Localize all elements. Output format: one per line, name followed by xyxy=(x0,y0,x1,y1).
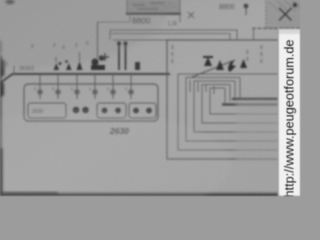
riser above D3 xyxy=(79,52,81,61)
vignette bottom-light xyxy=(0,110,230,220)
pin 3 xyxy=(76,84,78,99)
U2 bottom edge wire xyxy=(252,27,300,29)
watermark strip xyxy=(279,29,301,196)
wire V x=253.5 from U2 xyxy=(253,28,255,40)
pin 6 xyxy=(130,84,132,99)
switch lever S2 xyxy=(192,60,235,77)
wire stub left xyxy=(13,66,15,74)
pin labels xyxy=(34,86,128,91)
connector dot P1 xyxy=(244,4,249,9)
pin 5 xyxy=(112,84,114,99)
paper background xyxy=(0,0,300,196)
comp Z5 xyxy=(228,61,236,72)
diode D4 xyxy=(203,56,213,66)
contrast veil xyxy=(0,0,279,196)
connector dot P2 xyxy=(293,3,298,8)
wire loop W2 xyxy=(186,78,278,142)
wire loop W5 xyxy=(210,88,278,114)
U2 cross symbol xyxy=(279,8,292,21)
wire V x=97.5 xyxy=(97,22,99,58)
diode D6 xyxy=(240,59,247,68)
D1 stem xyxy=(55,57,57,62)
wire V x=110 xyxy=(109,30,111,40)
wire loop W3 xyxy=(194,81,278,132)
terminal pair T3 xyxy=(133,108,152,114)
strip edge xyxy=(277,29,278,196)
terminal pair T2 xyxy=(102,108,121,114)
wire loop W4 xyxy=(202,85,278,124)
wire V x=130 xyxy=(129,14,131,22)
U1 bottom edge xyxy=(126,12,181,14)
bus junction dots xyxy=(39,73,133,76)
diode D1 on bus xyxy=(54,62,62,70)
harness box K1 xyxy=(167,40,278,159)
sub-box B2 xyxy=(97,103,126,118)
wire H y=22 xyxy=(98,21,131,23)
S1 dots xyxy=(117,41,128,45)
node x mark xyxy=(188,12,194,18)
U1 hatch xyxy=(131,2,177,9)
sub-box B1 xyxy=(28,103,66,118)
bottom paper edge shadow xyxy=(0,192,280,197)
terminal pair T1 xyxy=(73,107,89,114)
vignette top-left xyxy=(0,0,168,68)
left paper edge shadow xyxy=(0,39,5,196)
U1 mottle xyxy=(133,3,164,9)
pin 4 xyxy=(94,84,96,99)
sub-box B3 xyxy=(129,103,156,118)
diode D3 arrow xyxy=(77,61,83,70)
P1 stem wire xyxy=(245,8,247,15)
bus drop wires to connector pins xyxy=(40,74,131,84)
component box U2 top right xyxy=(266,0,304,28)
top-center box U1 xyxy=(127,0,180,13)
corner smudge xyxy=(6,0,15,4)
diode D2 on bus xyxy=(65,60,72,70)
wire H y=40 feeding box K1 xyxy=(113,39,167,41)
contact S1 bars xyxy=(119,44,126,70)
fade wash over loops xyxy=(236,100,280,162)
ECU box 2630 xyxy=(24,84,158,121)
wire H y=33.5 with corner down at 230 xyxy=(110,34,230,41)
diode D5 xyxy=(216,60,224,70)
wire band B-lower xyxy=(222,103,278,105)
junction ticks xyxy=(190,80,214,94)
pin 2 xyxy=(57,84,59,99)
K3 tick xyxy=(101,53,109,61)
wire H y=30 with corner down at 237 xyxy=(110,30,237,40)
pin 1 xyxy=(39,84,41,99)
U2 hatch xyxy=(269,0,301,11)
relay K3 cluster xyxy=(91,55,105,70)
wire band B-upper xyxy=(232,98,278,100)
wire from U1 right edge down xyxy=(179,0,181,22)
main bus wire xyxy=(0,74,170,83)
small comp C1 xyxy=(135,62,140,70)
wire loop W1 xyxy=(178,74,278,150)
